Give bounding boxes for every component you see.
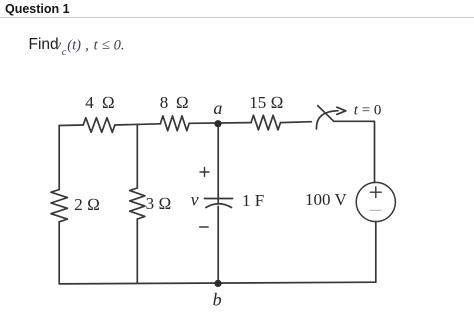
svg-text:b: b — [213, 290, 222, 310]
svg-text:4: 4 — [85, 93, 94, 112]
svg-text:≤: ≤ — [102, 37, 110, 53]
svg-text:3 Ω: 3 Ω — [146, 194, 172, 213]
svg-text:100 V: 100 V — [305, 190, 347, 209]
svg-text:Ω: Ω — [176, 93, 189, 112]
svg-text:15 Ω: 15 Ω — [249, 93, 283, 112]
svg-text:t = 0: t = 0 — [354, 103, 382, 119]
svg-text:t: t — [94, 38, 99, 54]
svg-text:Ω: Ω — [102, 93, 115, 112]
svg-text:(t): (t) — [67, 38, 81, 54]
svg-text:2 Ω: 2 Ω — [74, 195, 100, 214]
svg-text:,: , — [85, 38, 89, 54]
svg-text:8: 8 — [160, 93, 169, 112]
svg-text:v: v — [55, 38, 62, 54]
svg-text:0.: 0. — [114, 38, 125, 54]
svg-text:v: v — [191, 190, 199, 210]
svg-text:1 F: 1 F — [242, 191, 264, 210]
svg-text:a: a — [213, 98, 222, 118]
svg-text:c: c — [62, 47, 67, 58]
